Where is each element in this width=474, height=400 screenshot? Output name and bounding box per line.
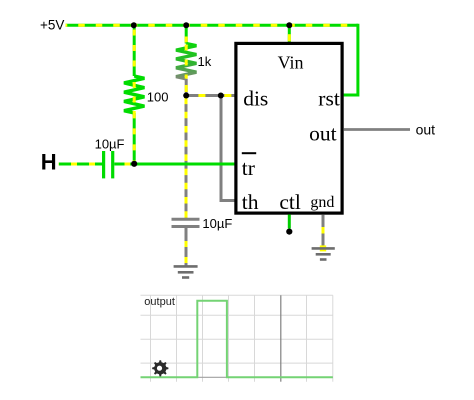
scope cursor line	[280, 295, 282, 381]
wire dis node horizontal	[186, 94, 236, 97]
svg-text:out: out	[416, 122, 436, 138]
scope zero line	[141, 376, 333, 378]
wire R2 bottom stub	[185, 79, 188, 96]
svg-text:dis: dis	[243, 86, 268, 110]
wire C2 to ground	[185, 227, 188, 267]
scope grid verticals	[151, 295, 333, 381]
capacitor C1 10uF	[104, 151, 113, 178]
resistor R1 100 branch wire top	[133, 25, 136, 76]
svg-text:tr: tr	[242, 156, 255, 180]
svg-text:gnd: gnd	[310, 194, 334, 211]
node ctl dot	[286, 229, 292, 235]
wire Vin pin stub	[288, 25, 291, 43]
svg-text:100: 100	[147, 90, 169, 105]
svg-text:10µF: 10µF	[202, 216, 232, 231]
wire rst drop	[344, 24, 358, 95]
svg-text:th: th	[242, 190, 259, 214]
junction dot B (+5V/R2)	[183, 22, 189, 28]
svg-text:Vin: Vin	[278, 53, 304, 73]
wire th L-shape	[221, 96, 236, 201]
wire H to C1	[59, 163, 102, 166]
wire gnd pin stub	[320, 215, 326, 252]
svg-text:output: output	[144, 296, 175, 308]
svg-text:H: H	[41, 149, 57, 174]
svg-text:+5V: +5V	[40, 17, 64, 32]
svg-text:rst: rst	[318, 86, 340, 110]
ground G1	[174, 266, 198, 277]
junction dot C (+5V/Vin)	[286, 22, 292, 28]
junction dot F (C1/R1/tr)	[131, 161, 137, 167]
wire ctl pin stub	[288, 215, 291, 229]
resistor R2 1k branch wire top	[185, 25, 188, 43]
wire out pin	[344, 128, 410, 131]
resistor R2 1k	[176, 44, 196, 79]
junction dot D (dis/R2)	[183, 93, 189, 99]
svg-text:ctl: ctl	[279, 190, 301, 214]
scope grid horizontals	[141, 295, 333, 363]
chip U1 555 box	[236, 43, 342, 213]
svg-text:10µF: 10µF	[95, 136, 125, 151]
junction dot E (dis/th)	[218, 93, 224, 99]
capacitor C2 10uF	[172, 219, 200, 226]
resistor R1 100 branch wire bottom	[133, 113, 136, 164]
scope trace output	[141, 301, 333, 378]
wire dis to C2 vertical	[185, 96, 188, 220]
pin label tr overline	[242, 152, 256, 154]
scope gear icon	[152, 360, 168, 376]
svg-text:1k: 1k	[198, 54, 212, 69]
wire C1 to tr pin	[114, 163, 236, 166]
ground G2	[312, 248, 335, 259]
junction dot A (+5V/R1)	[131, 22, 137, 28]
resistor R1 100	[124, 76, 144, 113]
svg-text:out: out	[309, 122, 337, 146]
wire +5V rail	[66, 24, 358, 27]
